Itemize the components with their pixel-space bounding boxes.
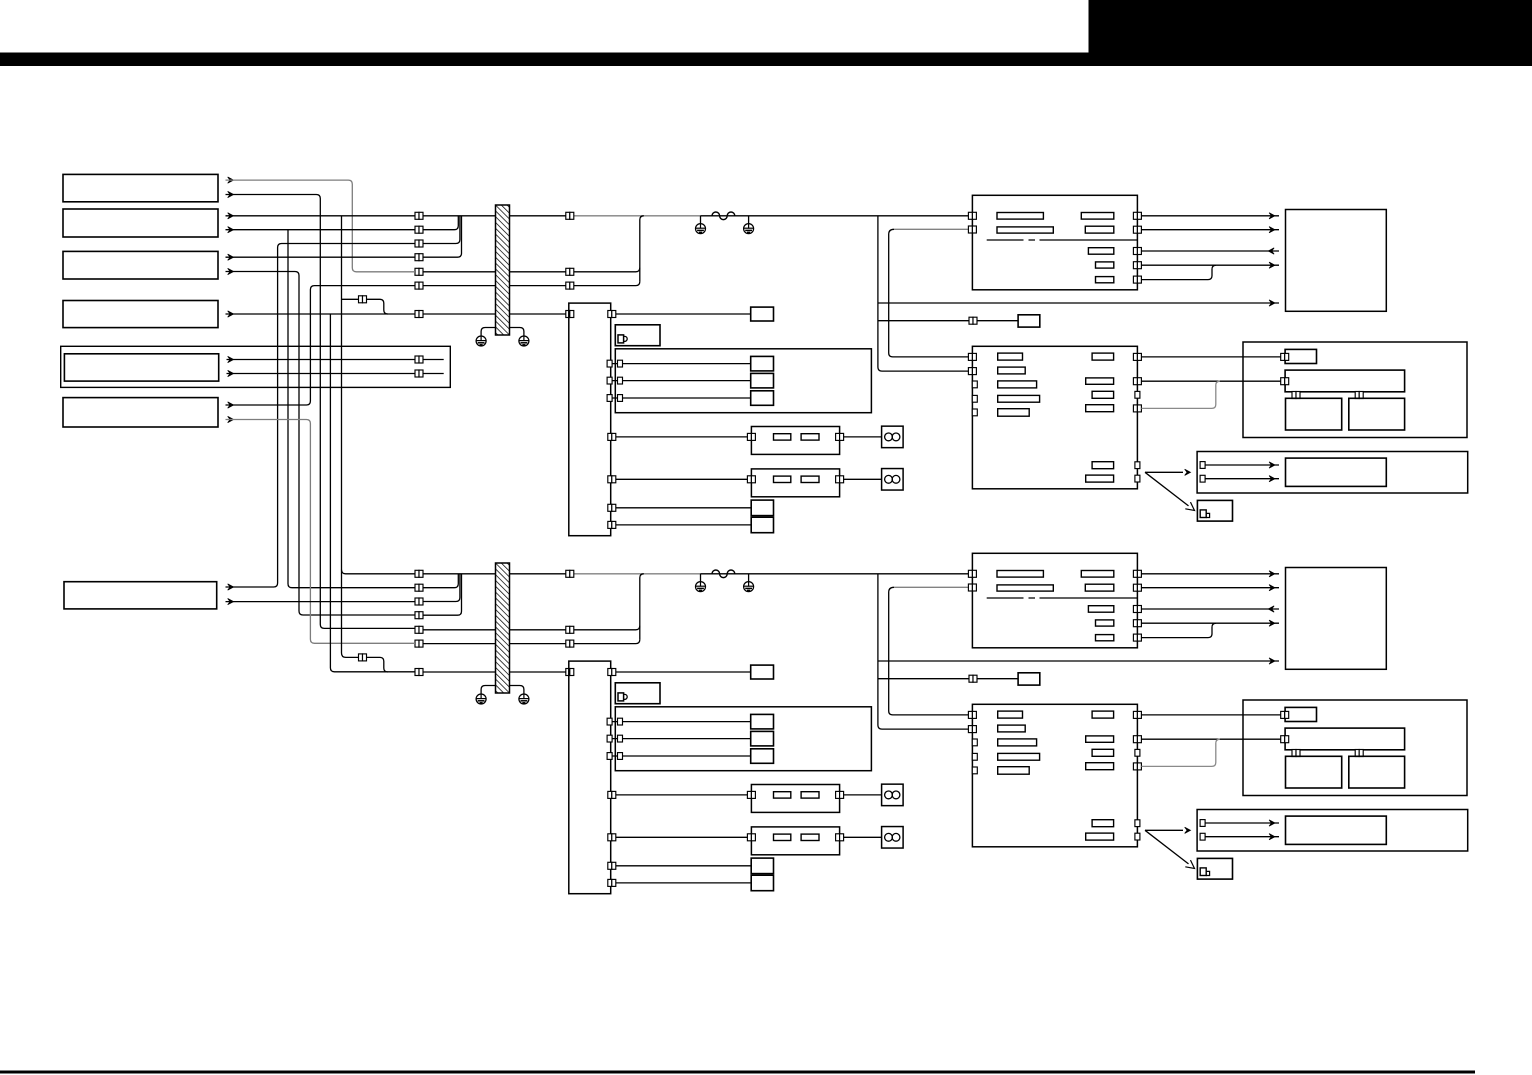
- connector row 3 inner: [618, 395, 623, 402]
- connector row 2 inner: [618, 377, 623, 384]
- connector trunk tap upper: [359, 296, 367, 303]
- arrow relay 1: [1269, 462, 1275, 468]
- wire main harness B+ line: [415, 215, 574, 217]
- connector block pin row 2: [607, 377, 612, 384]
- arrow 2: [1269, 227, 1275, 233]
- connector stub left motor: [1292, 392, 1300, 399]
- label box source 4: [63, 301, 218, 328]
- label rect B4: [998, 395, 1040, 402]
- label rect B3: [998, 381, 1037, 388]
- connector block aux 1: [608, 504, 616, 511]
- connector unit B p5: [972, 409, 977, 416]
- wire terminal stub 2: [748, 216, 750, 224]
- wire source2b: [226, 229, 416, 231]
- connector speaker box left 2: [747, 476, 755, 483]
- connector module sub: [1281, 353, 1289, 360]
- connector block pin row 1: [607, 360, 612, 367]
- wire main trunk vertical: [342, 216, 359, 658]
- label rect B9: [1086, 405, 1114, 412]
- ground chassis left: [476, 336, 486, 346]
- wire source2a main: [226, 215, 416, 217]
- wire feed to display unit: [878, 302, 1279, 304]
- label rect B8: [1092, 391, 1114, 398]
- connector relay 1: [1200, 462, 1205, 469]
- label rect A5: [1088, 248, 1113, 255]
- wire trunk tap upper: [342, 298, 359, 300]
- connector speaker box left 1: [747, 433, 755, 440]
- connector unit A out4: [1133, 262, 1141, 269]
- wire main harness to unit A: [701, 215, 970, 217]
- arrow 4: [1269, 262, 1275, 268]
- arrowhead ref 2: [1185, 502, 1194, 510]
- speaker symbol 2: [882, 469, 904, 491]
- wire block aux 1: [616, 507, 751, 509]
- firewall grommet (hatched bar): [496, 205, 510, 335]
- label rect speaker 1b: [801, 434, 819, 440]
- label box source 5 inner: [64, 354, 218, 381]
- wire tap rejoin lower: [367, 657, 388, 672]
- connector unit A in1: [968, 212, 976, 219]
- connector CN main: [415, 212, 423, 219]
- arrow 3 (reverse): [1268, 248, 1274, 254]
- connector plug icon: [618, 335, 627, 343]
- box motor left: [1286, 398, 1342, 430]
- arrowhead source y373.5: [228, 370, 234, 376]
- wire block to antenna box: [611, 313, 751, 315]
- wire source6b to lower ill: [226, 420, 416, 644]
- connector trunk tap lower: [359, 654, 367, 661]
- connector unit B p6: [1135, 391, 1140, 398]
- wire unit A acc out (gray): [894, 228, 969, 230]
- connector block speaker 1: [608, 433, 616, 440]
- wire trunk to lower main: [342, 570, 416, 574]
- connector relay 2: [1200, 475, 1205, 482]
- box antenna module group: [1243, 342, 1467, 438]
- arrowhead source y229.7: [228, 227, 234, 233]
- label rect B2: [998, 367, 1025, 374]
- wire relay 2: [1205, 478, 1279, 480]
- connector module main: [1281, 378, 1289, 385]
- box unit B: [972, 346, 1137, 489]
- connector unit B out1: [1133, 353, 1141, 360]
- arrowhead source y601.6: [228, 599, 234, 605]
- connector source5a: [415, 356, 423, 363]
- connector unit B p3: [972, 381, 977, 388]
- box option row 2: [751, 373, 774, 388]
- wire branch feed to unit B pin2: [878, 216, 969, 371]
- fuse fusible link: [712, 212, 735, 220]
- connector CM acc: [566, 268, 574, 275]
- box main connector block: [569, 303, 611, 536]
- wire switched branch to lower: [330, 314, 415, 672]
- connector CN line3: [415, 240, 423, 247]
- header rule bar: [0, 53, 1532, 67]
- wire source3a: [226, 256, 416, 258]
- box option unit group: [615, 349, 871, 413]
- label rect B6: [1092, 353, 1114, 360]
- wire source5a: [227, 359, 444, 361]
- wire display to A: [1141, 250, 1279, 252]
- label rect B11: [1086, 475, 1114, 482]
- connector unit A out2: [1133, 226, 1141, 233]
- wire speaker feed 1: [616, 436, 752, 438]
- arrowhead source y257.2: [228, 254, 234, 260]
- connector unit B p4: [972, 395, 977, 402]
- label rect B7: [1086, 378, 1114, 384]
- label box source 3: [63, 251, 218, 279]
- wire unit A to unit B link: [889, 229, 970, 357]
- wire accessory line through firewall: [415, 268, 640, 272]
- wire lower source a to upper line3: [226, 244, 416, 588]
- wire feed to option box: [878, 320, 1018, 322]
- connector unit B in2: [968, 368, 976, 375]
- terminal ground 1: [696, 224, 706, 234]
- wire source6a to upper ill: [226, 286, 416, 405]
- wire merge line 2 into main: [415, 216, 458, 229]
- wire illumination line through firewall: [415, 282, 640, 286]
- wire merge line 3 into main: [415, 216, 460, 243]
- box unit A head unit: [972, 195, 1137, 289]
- wire A to display 4: [1141, 264, 1279, 266]
- label rect B1: [998, 353, 1023, 360]
- wire ground stub left: [481, 328, 495, 337]
- wire B out3 merge: [1141, 381, 1219, 408]
- connector block speaker 2: [608, 476, 616, 483]
- connector unit B out2: [1133, 378, 1141, 385]
- arrowhead source y271.5: [228, 268, 234, 274]
- wire B to module main: [1141, 380, 1281, 382]
- connector unit A in2: [968, 226, 976, 233]
- wire terminal stub 1: [700, 216, 702, 224]
- arrowhead source y180.1: [228, 177, 234, 183]
- header title block (black): [1089, 0, 1532, 54]
- wire A to display 1: [1141, 215, 1279, 217]
- wire ground stub right: [510, 328, 524, 337]
- arrowhead source y314: [228, 311, 234, 317]
- connector speaker box right 2: [836, 476, 844, 483]
- label rect A1: [997, 213, 1043, 220]
- wire merge line 4 into main: [415, 216, 462, 257]
- box module main: [1285, 370, 1405, 392]
- label rect speaker 1a: [774, 434, 791, 440]
- arrowhead source y215.8: [228, 213, 234, 219]
- label rect A3: [1081, 213, 1114, 220]
- wire option row 1: [612, 363, 751, 365]
- box option row 3: [751, 391, 774, 406]
- connector plug icon small: [1200, 510, 1206, 518]
- wire ref arrow horizontal: [1145, 471, 1183, 473]
- connector option line: [969, 317, 977, 324]
- connector CM sw: [566, 311, 574, 318]
- wire branch line2 to lower: [288, 230, 415, 588]
- label rect A2: [997, 227, 1053, 233]
- wire speaker feed 2: [616, 478, 752, 480]
- arrowhead source y405: [228, 402, 234, 408]
- connector CN sw: [415, 311, 423, 318]
- wire tap rejoin upper: [367, 299, 388, 314]
- label box source 7 (lower unit): [64, 582, 217, 609]
- arrowhead source y194.5: [228, 191, 234, 197]
- box speaker harness 2: [751, 469, 839, 497]
- box motor right: [1349, 398, 1405, 430]
- connector speaker box right 1: [836, 433, 844, 440]
- wire source1a to acc line: [226, 180, 416, 272]
- label box source 1: [63, 174, 218, 201]
- connector block aux 2: [608, 521, 616, 528]
- box relay inner: [1286, 458, 1387, 486]
- wire source4 switched: [226, 313, 416, 315]
- wire switched line to unit connector: [415, 313, 569, 315]
- wire rejoin vertical to main: [640, 216, 644, 282]
- box relay strip: [1197, 452, 1468, 494]
- wire lower source b: [226, 601, 416, 603]
- connector stub right motor: [1355, 392, 1363, 399]
- wire ref arrow diagonal: [1145, 472, 1189, 506]
- connector CN line4: [415, 254, 423, 261]
- terminal ground 2: [744, 224, 754, 234]
- label rect B10: [1092, 462, 1114, 469]
- connector unit B p8: [1135, 475, 1140, 482]
- box aux 1: [751, 500, 773, 515]
- wire A out5 merge: [1141, 265, 1216, 279]
- wire B to module sub: [1141, 356, 1281, 358]
- wire A to display 2: [1141, 229, 1279, 231]
- label box source 5 outer: [61, 346, 451, 387]
- box module sub: [1285, 349, 1316, 363]
- label box source 6: [63, 398, 218, 427]
- box speaker harness 1: [751, 427, 839, 455]
- ground chassis right: [519, 336, 529, 346]
- label box source 2: [63, 209, 218, 237]
- wire source1b to lower acc: [226, 195, 416, 629]
- connector block pin top: [608, 311, 616, 318]
- footer rule: [0, 1071, 1475, 1074]
- box option row 1: [751, 356, 774, 371]
- wire option row 2: [612, 380, 751, 382]
- speaker symbol 1: [882, 426, 904, 448]
- wire block aux 2: [616, 524, 751, 526]
- label rect speaker 2b: [801, 476, 819, 482]
- label rect A6: [1096, 262, 1114, 268]
- box aux 2: [751, 517, 773, 533]
- connector block pin row 3: [607, 395, 612, 402]
- box display unit: [1286, 210, 1387, 312]
- wire to speaker 2: [844, 478, 882, 480]
- arrowhead source y587: [228, 584, 234, 590]
- wire main harness (gray run): [574, 215, 701, 217]
- label rect B5: [998, 409, 1029, 417]
- wire relay 1: [1205, 464, 1279, 466]
- connector CM main: [566, 212, 574, 219]
- wire to speaker 1: [844, 436, 882, 438]
- connector unit B out3: [1133, 405, 1141, 412]
- arrow into display unit: [1269, 300, 1275, 306]
- connector CN ill: [415, 282, 423, 289]
- wire source5b: [227, 373, 444, 375]
- label rect speaker 2a: [774, 476, 791, 482]
- connector unit A out1: [1133, 212, 1141, 219]
- label rect A7: [1096, 277, 1114, 283]
- arrowhead source y419.5: [228, 416, 234, 422]
- box option module: [1018, 315, 1040, 327]
- divider dash line unit A: [987, 239, 1138, 241]
- wire source3b to lower line4: [226, 272, 416, 616]
- connector unit A out5: [1133, 276, 1141, 283]
- arrow relay 2: [1269, 476, 1275, 482]
- arrowhead ref 1: [1185, 469, 1191, 475]
- connector unit B p7: [1135, 462, 1140, 469]
- box antenna: [751, 307, 774, 321]
- connector CM ill: [566, 282, 574, 289]
- connector source5b: [415, 370, 423, 377]
- label rect A4: [1085, 226, 1114, 233]
- connector CN acc: [415, 268, 423, 275]
- connector row 1 inner: [618, 360, 623, 367]
- connector unit A out3: [1133, 248, 1141, 255]
- connector CN line2: [415, 226, 423, 233]
- connector unit B in1: [968, 353, 976, 360]
- arrowhead source y359.5: [228, 356, 234, 362]
- box plug lead: [1197, 500, 1232, 521]
- wire option row 3: [612, 397, 751, 399]
- arrow 1: [1269, 213, 1275, 219]
- box pigtail lead: [615, 325, 660, 346]
